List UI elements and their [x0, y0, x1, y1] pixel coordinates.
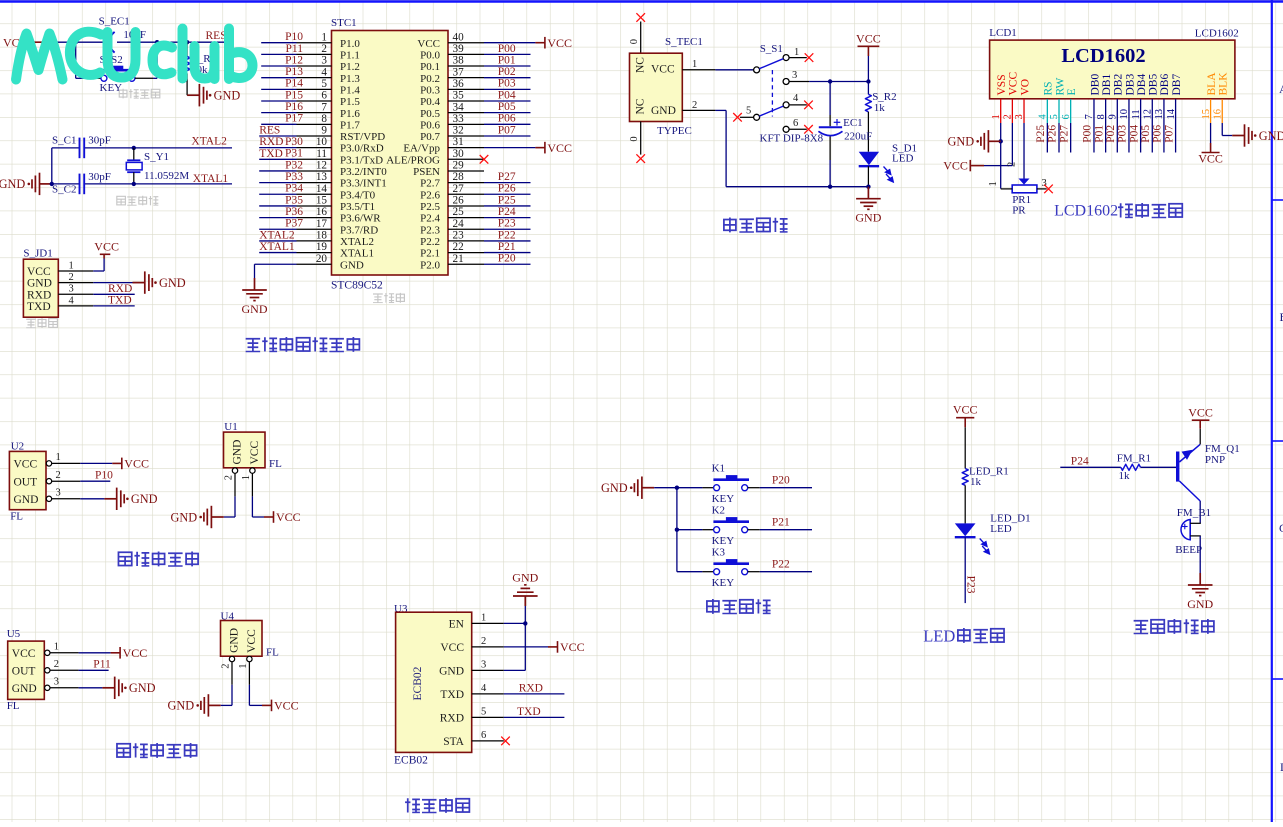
section label dian yuan dian lu — [724, 217, 736, 232]
pin 36 STC1 P0.3 — [448, 88, 484, 90]
svg-text:5: 5 — [1049, 114, 1060, 119]
capacitor EC1 220uF — [829, 82, 831, 116]
wire BLK to GND — [1221, 123, 1223, 136]
svg-text:DB6: DB6 — [1159, 74, 1171, 96]
svg-text:9: 9 — [321, 125, 327, 137]
svg-text:P13: P13 — [285, 66, 303, 78]
pin 33 STC1 P0.6 — [448, 123, 484, 125]
pin 17 STC1 P3.7/RD — [297, 228, 332, 230]
svg-text:P04: P04 — [1128, 125, 1140, 143]
svg-text:P0.4: P0.4 — [420, 96, 440, 108]
wire net P06 — [484, 123, 531, 125]
wire net P04 — [484, 100, 531, 102]
svg-text:VCC: VCC — [124, 457, 149, 471]
svg-text:15: 15 — [1201, 109, 1212, 120]
svg-text:BEEP: BEEP — [1175, 544, 1202, 556]
pin 34 STC1 P0.5 — [448, 112, 484, 114]
svg-text:4: 4 — [321, 66, 327, 78]
led S_D1 LED — [859, 152, 879, 166]
svg-text:P26: P26 — [498, 183, 516, 195]
svg-text:P17: P17 — [285, 113, 303, 125]
svg-text:FL: FL — [10, 511, 23, 523]
wire net P22 — [484, 240, 531, 242]
svg-text:PR: PR — [1012, 205, 1026, 217]
svg-text:30pF: 30pF — [88, 135, 111, 147]
svg-text:P0.1: P0.1 — [420, 61, 440, 73]
pin 22 STC1 P2.1 — [448, 252, 484, 254]
svg-text:GND: GND — [14, 494, 39, 506]
svg-text:KEY: KEY — [712, 535, 735, 547]
svg-text:23: 23 — [453, 230, 465, 242]
svg-text:P1.0: P1.0 — [340, 38, 360, 50]
wire RXD net — [93, 293, 134, 295]
section label hong wai dui she guan (top) — [118, 552, 131, 565]
wire net P25 — [484, 205, 531, 207]
wire net P06 (lcd) — [1163, 123, 1165, 153]
pin 2 S_JD1 — [58, 282, 93, 284]
svg-text:S_R2: S_R2 — [872, 91, 896, 103]
svg-text:13: 13 — [316, 171, 328, 183]
svg-text:VCC: VCC — [27, 266, 51, 278]
wire pin1 to VCC — [93, 270, 104, 272]
svg-text:XTAL1: XTAL1 — [340, 248, 374, 260]
svg-text:OUT: OUT — [14, 476, 38, 488]
svg-text:1: 1 — [54, 642, 59, 653]
svg-text:18: 18 — [316, 230, 328, 242]
svg-text:U1: U1 — [224, 421, 237, 433]
svg-text:RST/VPD: RST/VPD — [340, 131, 385, 143]
svg-text:1: 1 — [238, 663, 249, 668]
svg-text:XTAL1: XTAL1 — [259, 241, 295, 253]
no-connect X typec top — [636, 13, 645, 22]
svg-text:25: 25 — [453, 206, 465, 218]
svg-text:VCC: VCC — [274, 699, 299, 713]
svg-text:P27: P27 — [498, 171, 516, 183]
ground GND (U1) — [204, 506, 224, 528]
wire net P05 (lcd) — [1151, 123, 1153, 153]
wire gnd to EN and GND pins — [524, 606, 526, 670]
svg-text:P34: P34 — [285, 183, 303, 195]
svg-text:DB3: DB3 — [1124, 74, 1136, 96]
svg-text:8: 8 — [321, 113, 327, 125]
pin 1 S_JD1 — [58, 270, 93, 272]
pin 26 STC1 P2.5 — [448, 205, 484, 207]
svg-text:C: C — [1279, 521, 1283, 535]
svg-text:P01: P01 — [1093, 125, 1105, 143]
svg-text:5: 5 — [746, 106, 751, 117]
svg-text:P0.5: P0.5 — [420, 108, 440, 120]
svg-text:30: 30 — [453, 148, 465, 160]
svg-text:VCC: VCC — [1188, 406, 1213, 420]
svg-text:21: 21 — [453, 253, 464, 265]
wire net P21 — [484, 252, 531, 254]
svg-text:16: 16 — [1212, 109, 1223, 120]
svg-text:VO: VO — [1019, 79, 1031, 96]
pin 35 STC1 P0.4 — [448, 100, 484, 102]
svg-text:P23: P23 — [964, 576, 976, 594]
svg-text:TXD: TXD — [108, 295, 132, 307]
wire net P20 — [760, 487, 812, 489]
svg-text:15: 15 — [316, 195, 328, 207]
svg-text:P05: P05 — [1140, 125, 1152, 143]
wire net P37 — [259, 228, 296, 230]
pin 37 STC1 P0.2 — [448, 77, 484, 79]
sheet frame top border — [0, 0, 1283, 2]
svg-text:P11: P11 — [93, 659, 111, 671]
svg-text:P3.6/WR: P3.6/WR — [340, 213, 381, 225]
svg-text:K1: K1 — [712, 463, 725, 475]
ground GND (mcu) — [242, 278, 267, 301]
svg-text:1k: 1k — [970, 476, 982, 488]
pin 31 STC1 EA/Vpp — [448, 147, 484, 149]
svg-text:GND: GND — [855, 211, 881, 225]
section label dan pian ji zui xiao xi tong — [246, 339, 261, 352]
svg-text:34: 34 — [453, 101, 465, 113]
wire net P00 (lcd) — [1093, 123, 1095, 153]
ground GND (reset) — [187, 84, 207, 106]
svg-text:10: 10 — [1119, 109, 1130, 120]
svg-text:GND: GND — [129, 681, 156, 695]
svg-text:VCC: VCC — [651, 64, 675, 76]
ground GND (crystal) — [32, 173, 52, 195]
pin 1 S_S1 — [789, 57, 807, 59]
svg-text:0: 0 — [629, 136, 640, 141]
switch lever pole2 to pin1 — [759, 59, 783, 69]
svg-text:TXD: TXD — [259, 148, 283, 160]
svg-text:PNP: PNP — [1205, 454, 1225, 466]
wire net P11 — [261, 53, 296, 55]
junction at crystal ground — [50, 182, 54, 186]
svg-text:LED: LED — [990, 523, 1011, 535]
svg-text:P1.3: P1.3 — [340, 73, 360, 85]
sheet frame zone ticks — [1272, 200, 1283, 679]
junction at switch left leg — [74, 40, 78, 44]
pin 27 STC1 P2.6 — [448, 193, 484, 195]
svg-text:VCC: VCC — [14, 459, 38, 471]
wire S_D1 to ground rail — [867, 166, 869, 187]
wire U1 pin1 to VCC — [251, 496, 253, 517]
svg-text:STC1: STC1 — [331, 17, 357, 29]
pin 30 STC1 ALE/PROG — [448, 158, 484, 160]
wire U2 pin3 to GND — [80, 498, 104, 500]
pin 4 S_S1 — [789, 104, 807, 106]
svg-text:GND: GND — [242, 302, 268, 316]
transistor FM_Q1 PNP — [1176, 452, 1179, 482]
pin 12 STC1 P3.2/INT0 — [297, 170, 332, 172]
svg-text:FM_R1: FM_R1 — [1117, 453, 1151, 465]
svg-text:1k: 1k — [874, 102, 886, 114]
wire GND (pin20) — [255, 263, 297, 265]
svg-text:P11: P11 — [286, 43, 304, 55]
svg-text:1: 1 — [794, 47, 799, 58]
pin 5 S_S1 — [740, 116, 754, 118]
pin 0 typec top — [640, 22, 642, 54]
svg-text:14: 14 — [1166, 108, 1177, 119]
svg-text:4: 4 — [1038, 114, 1049, 120]
svg-text:P23: P23 — [498, 218, 516, 230]
svg-text:P04: P04 — [498, 89, 516, 101]
pin 23 STC1 P2.2 — [448, 240, 484, 242]
svg-text:30pF: 30pF — [88, 171, 111, 183]
ground GND (U5) — [102, 677, 122, 699]
svg-text:GND: GND — [1187, 597, 1213, 611]
svg-text:P32: P32 — [285, 159, 303, 171]
wire net P10 — [261, 42, 296, 44]
svg-text:39: 39 — [453, 43, 465, 55]
wire cap common leg — [51, 148, 53, 184]
pin 1 PR1 — [1001, 188, 1013, 190]
svg-text:GND: GND — [601, 481, 628, 495]
ground GND (U4) — [201, 694, 221, 716]
svg-text:S_C2: S_C2 — [52, 184, 76, 196]
svg-text:1: 1 — [69, 260, 74, 271]
svg-text:P03: P03 — [498, 78, 516, 90]
svg-text:GND: GND — [159, 276, 186, 290]
pin 6 STC1 P1.5 — [297, 100, 332, 102]
no-connect X typec bottom — [636, 154, 645, 163]
svg-text:3: 3 — [54, 677, 59, 688]
svg-text:P06: P06 — [1152, 125, 1164, 143]
pin 16 STC1 P3.6/WR — [297, 217, 332, 219]
svg-text:LCD1: LCD1 — [989, 27, 1017, 39]
wire VCC to S_R2 — [867, 56, 869, 94]
wire VCC to S_EC1 — [54, 41, 107, 43]
svg-text:P05: P05 — [498, 101, 516, 113]
svg-text:P07: P07 — [498, 124, 516, 136]
wire net P23 — [484, 228, 531, 230]
wire net P12 — [261, 65, 296, 67]
wire VCC to LED_R1 — [964, 427, 966, 468]
wire net P16 — [261, 112, 296, 114]
svg-text:40: 40 — [453, 31, 465, 43]
svg-text:S_EC1: S_EC1 — [99, 15, 130, 27]
svg-text:3: 3 — [56, 488, 61, 499]
ground GND (U2) — [104, 488, 124, 510]
svg-text:P22: P22 — [772, 559, 790, 571]
svg-text:VCC: VCC — [123, 646, 148, 660]
svg-text:RXD: RXD — [259, 136, 283, 148]
wire XTAL1 net — [52, 183, 80, 185]
no-connect X S_S1 pin1 — [805, 53, 814, 62]
svg-text:U5: U5 — [7, 628, 21, 640]
svg-text:28: 28 — [453, 171, 465, 183]
svg-text:P2.6: P2.6 — [420, 189, 440, 201]
svg-text:GND: GND — [171, 510, 198, 524]
svg-text:RXD: RXD — [27, 289, 51, 301]
comment text dan pian ji — [373, 294, 383, 303]
wire net P31 TXD (pin11) — [259, 158, 296, 160]
wire VO to wiper — [1023, 123, 1025, 179]
svg-text:GND: GND — [340, 259, 364, 271]
pin 5 STC1 P1.4 — [297, 88, 332, 90]
wire pin2 to GND — [93, 282, 132, 284]
wire net P30 RXD (pin10) — [259, 147, 296, 149]
svg-text:P2.4: P2.4 — [420, 213, 440, 225]
comment text xia zai kou — [26, 319, 36, 328]
svg-text:24: 24 — [453, 218, 465, 230]
svg-text:3: 3 — [481, 659, 486, 670]
pin 20 STC1 GND — [297, 263, 332, 265]
svg-text:P20: P20 — [772, 475, 790, 487]
svg-text:P25: P25 — [498, 194, 516, 206]
power port VCC (U5) — [111, 647, 121, 659]
wire net P14 — [261, 88, 296, 90]
svg-text:P26: P26 — [1047, 125, 1059, 143]
wire net P01 (lcd) — [1105, 123, 1107, 153]
wire S_R2 to S_D1 — [867, 112, 869, 152]
junction EN node — [523, 621, 527, 625]
svg-text:0: 0 — [629, 39, 640, 44]
wire net P03 — [484, 88, 531, 90]
svg-text:EC1: EC1 — [843, 117, 863, 129]
svg-text:2: 2 — [1007, 162, 1018, 167]
svg-text:P1.6: P1.6 — [340, 108, 360, 120]
wire net XTAL2 (pin18) — [259, 240, 296, 242]
svg-text:4: 4 — [793, 93, 799, 104]
wire buzzer to GND — [1199, 536, 1201, 577]
wire net P21 — [760, 529, 812, 531]
svg-text:S_TEC1: S_TEC1 — [665, 36, 703, 48]
pin 38 STC1 P0.1 — [448, 65, 484, 67]
pin 1 U2 — [46, 461, 51, 466]
svg-text:GND: GND — [131, 492, 158, 506]
svg-text:3: 3 — [321, 55, 327, 67]
svg-text:FL: FL — [7, 700, 20, 712]
svg-text:RES: RES — [259, 124, 280, 136]
pin 2 U5 — [45, 668, 50, 673]
wire net P26 — [1058, 123, 1060, 153]
svg-text:P30: P30 — [285, 136, 303, 148]
pin 3 U5 — [45, 685, 50, 690]
comment text an jian fu wei — [119, 89, 127, 99]
svg-text:KEY: KEY — [712, 577, 735, 589]
svg-text:35: 35 — [453, 90, 465, 102]
svg-text:LCD1602: LCD1602 — [1195, 28, 1239, 40]
pin 21 STC1 P2.0 — [448, 263, 484, 265]
svg-text:P33: P33 — [285, 171, 303, 183]
svg-text:VCC: VCC — [249, 441, 261, 465]
svg-text:S_JD1: S_JD1 — [23, 247, 52, 259]
svg-text:P21: P21 — [772, 517, 790, 529]
svg-text:17: 17 — [316, 218, 328, 230]
svg-text:P22: P22 — [498, 229, 516, 241]
pin 3 PR1 — [1037, 188, 1047, 190]
svg-text:LED: LED — [923, 627, 955, 646]
pin 24 STC1 P2.3 — [448, 228, 484, 230]
power port VCC (pin40) — [535, 37, 545, 49]
svg-text:KFT DIP-8X8: KFT DIP-8X8 — [760, 133, 824, 145]
svg-text:6: 6 — [481, 730, 486, 741]
svg-text:VSS: VSS — [996, 74, 1008, 95]
wire net P01 — [484, 65, 531, 67]
svg-text:DB5: DB5 — [1148, 74, 1160, 96]
svg-text:P00: P00 — [498, 43, 516, 55]
svg-text:P25: P25 — [1035, 125, 1047, 143]
pin 2 U4 — [229, 656, 234, 661]
svg-text:S_S1: S_S1 — [760, 43, 783, 55]
svg-text:P3.3/INT1: P3.3/INT1 — [340, 178, 387, 190]
svg-text:2: 2 — [481, 636, 486, 647]
power port VCC (backlight) — [1202, 143, 1220, 153]
wire switch right branch — [153, 77, 157, 79]
svg-text:P3.5/T1: P3.5/T1 — [340, 201, 375, 213]
power port VCC (U2) — [112, 458, 122, 470]
svg-text:FM_B1: FM_B1 — [1177, 507, 1211, 519]
svg-text:1: 1 — [241, 475, 252, 480]
crystal S_Y1 11.0592M — [133, 148, 135, 160]
svg-text:2: 2 — [54, 659, 59, 670]
svg-text:6: 6 — [793, 118, 798, 129]
svg-text:10: 10 — [316, 136, 328, 148]
junction key K2 — [675, 528, 679, 532]
pin 25 STC1 P2.4 — [448, 217, 484, 219]
pin 11 STC1 P3.1/TxD — [297, 158, 332, 160]
logo MCUclub — [16, 29, 253, 80]
wire net P32 — [259, 170, 296, 172]
ground GND (buzzer) — [1188, 573, 1213, 596]
svg-text:29: 29 — [453, 160, 465, 172]
pin 2 STC1 P1.1 — [297, 53, 332, 55]
pin 1 S_TEC1 — [682, 69, 715, 71]
svg-text:7: 7 — [321, 101, 327, 113]
pin 13 STC1 P3.3/INT1 — [297, 182, 332, 184]
wire U4 pin2 to GND — [231, 685, 233, 706]
svg-text:2: 2 — [692, 100, 697, 111]
svg-text:P31: P31 — [285, 148, 303, 160]
power port VCC (U4) — [262, 700, 272, 712]
section label hong wai dui she guan (bottom) — [117, 744, 130, 757]
svg-text:OUT: OUT — [12, 665, 36, 677]
pin 39 STC1 P0.0 — [448, 53, 484, 55]
ground GND (download) — [133, 271, 153, 293]
svg-text:2: 2 — [224, 475, 235, 480]
svg-text:GND: GND — [12, 683, 37, 695]
pin 1 U1 — [250, 468, 255, 473]
resistor S_R1 10k — [186, 42, 188, 56]
svg-text:P15: P15 — [285, 89, 303, 101]
wire net P35 — [259, 205, 296, 207]
svg-text:P37: P37 — [285, 218, 303, 230]
wire net P03 (lcd) — [1128, 123, 1130, 153]
wire net P17 — [261, 123, 296, 125]
pin 19 STC1 XTAL1 — [297, 252, 332, 254]
svg-text:VCC: VCC — [417, 38, 440, 50]
svg-text:RS: RS — [1043, 81, 1055, 95]
wire net RXD (bluetooth) — [504, 693, 565, 695]
wire VSS to gnd — [1000, 123, 1002, 189]
svg-text:14: 14 — [316, 183, 328, 195]
wire TEC1 pin2 to ground rail — [715, 109, 726, 111]
svg-text:GND: GND — [948, 135, 975, 149]
svg-text:P20: P20 — [498, 253, 516, 265]
wire VCC (bluetooth) — [504, 646, 548, 648]
svg-text:P0.2: P0.2 — [420, 73, 440, 85]
svg-text:P01: P01 — [498, 54, 516, 66]
wire net P27 — [1070, 123, 1072, 153]
svg-text:P1.4: P1.4 — [340, 84, 360, 96]
wire net P13 — [261, 77, 296, 79]
svg-text:VCC: VCC — [94, 239, 119, 253]
wire net RES (pin9) — [259, 135, 296, 137]
pin 3 S_JD1 — [58, 293, 93, 295]
svg-text:37: 37 — [453, 66, 465, 78]
svg-text:TXD: TXD — [440, 689, 464, 701]
svg-text:P1.7: P1.7 — [340, 119, 360, 131]
svg-text:P06: P06 — [498, 113, 516, 125]
junction VSS gnd — [999, 139, 1003, 143]
svg-text:NC: NC — [635, 57, 647, 73]
svg-text:LCD1602: LCD1602 — [1054, 203, 1118, 220]
